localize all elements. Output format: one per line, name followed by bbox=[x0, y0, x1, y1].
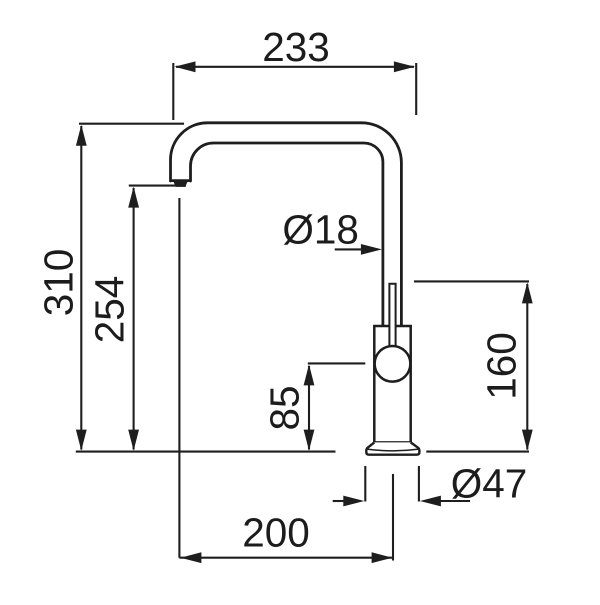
svg-text:254: 254 bbox=[86, 276, 132, 344]
spout aerator nub bbox=[173, 181, 187, 187]
handle ball bbox=[375, 346, 411, 382]
200 dim line bbox=[179, 557, 393, 559]
body housing bbox=[374, 326, 410, 442]
Ø47 right arrow head bbox=[420, 496, 441, 507]
85 top extension bbox=[308, 362, 366, 364]
85 bottom arrow bbox=[304, 430, 315, 451]
Ø47 left extension bbox=[364, 466, 366, 502]
spout outer contour bbox=[170, 123, 401, 326]
svg-text:200: 200 bbox=[242, 510, 310, 556]
Ø47 left arrow shaft bbox=[333, 500, 346, 502]
85 dim line bbox=[308, 366, 310, 450]
310 bottom arrow bbox=[76, 430, 87, 451]
254 dim line bbox=[133, 188, 135, 450]
svg-text:Ø47: Ø47 bbox=[451, 460, 528, 506]
spout centerline / 200 left extension bbox=[178, 198, 180, 558]
310 top arrow bbox=[76, 125, 87, 146]
faucet centerline bbox=[392, 474, 394, 561]
svg-text:85: 85 bbox=[261, 385, 307, 430]
spout inner contour bbox=[191, 143, 383, 326]
baseline right bbox=[426, 451, 529, 453]
svg-text:233: 233 bbox=[262, 24, 330, 70]
base flare bbox=[366, 442, 419, 454]
baseline left bbox=[76, 451, 336, 453]
svg-text:160: 160 bbox=[479, 332, 525, 400]
spout tip closure bbox=[170, 179, 192, 182]
Ø47 left arrow head bbox=[343, 496, 364, 507]
233 right arrow bbox=[394, 61, 415, 72]
233 left arrow bbox=[175, 61, 196, 72]
Ø47 right extension bbox=[418, 466, 420, 502]
160 dim line bbox=[526, 284, 528, 450]
svg-text:310: 310 bbox=[36, 249, 82, 317]
254 top arrow bbox=[128, 187, 139, 208]
Ø47 right arrow shaft bbox=[439, 500, 470, 502]
254 bottom arrow bbox=[128, 430, 139, 451]
310 dim line bbox=[80, 126, 82, 450]
Ø18 arrow shaft bbox=[335, 248, 363, 250]
85 top arrow bbox=[304, 364, 315, 385]
233 dim line bbox=[176, 66, 414, 68]
233 extensions bbox=[172, 63, 174, 120]
dimension graphics bbox=[76, 63, 529, 561]
lever rod bbox=[389, 284, 395, 347]
Ø18 arrow head bbox=[361, 244, 382, 255]
254 top extension bbox=[129, 185, 186, 187]
160 top arrow bbox=[522, 282, 533, 303]
160 top extension bbox=[414, 280, 529, 282]
310 top extension bbox=[79, 123, 184, 125]
svg-text:Ø18: Ø18 bbox=[282, 206, 359, 252]
200 left arrow bbox=[180, 552, 201, 563]
arrowheads bbox=[76, 61, 533, 563]
200 right arrow bbox=[372, 552, 393, 563]
160 bottom arrow bbox=[522, 430, 533, 451]
base inner line bbox=[367, 449, 419, 451]
